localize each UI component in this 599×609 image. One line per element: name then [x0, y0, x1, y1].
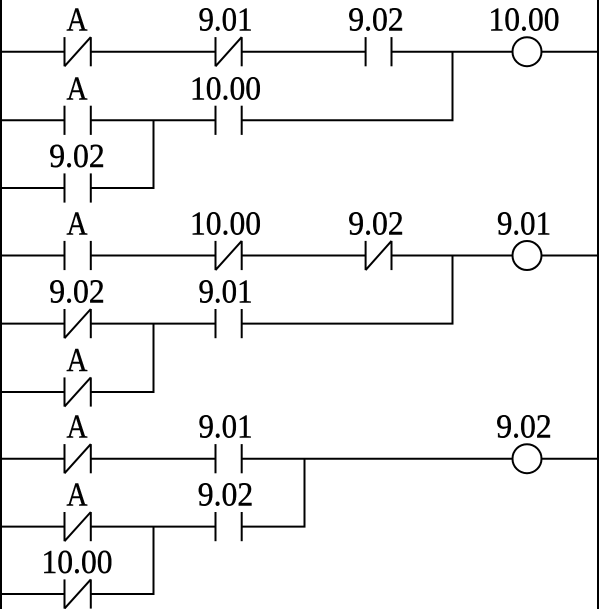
wire junction J1: rung3 up to rung2: [153, 120, 155, 188]
svg-text:9.02: 9.02: [348, 2, 404, 39]
wire rung7: left rail to contact A: [0, 458, 65, 460]
wire rung7: 9.01 to coil, through node J5: [242, 458, 513, 460]
svg-text:9.01: 9.01: [199, 274, 253, 311]
wire junction J6: rung9 up to rung8: [153, 527, 155, 594]
contact A (NC) rung6: [65, 377, 91, 406]
wire rung2: left rail to contact A: [0, 119, 65, 121]
contact 9.02 (NO) rung3: [65, 173, 91, 202]
wire rung7: coil to right rail: [542, 458, 599, 460]
coil 9.02: [513, 444, 542, 473]
wire rung1: 9.02 to coil, through node J2: [392, 51, 513, 53]
wire rung4: 10.00 to 9.02: [242, 255, 366, 257]
wire rung5: left rail to contact 9.02: [0, 323, 65, 325]
contact 9.02 (NO) rung8: [216, 512, 242, 541]
contact A (NC) rung8: [65, 512, 91, 541]
left power rail: [0, 0, 2, 609]
svg-text:A: A: [67, 342, 88, 379]
wire rung9: 10.00 to node J6: [91, 593, 155, 595]
contact 9.01 (NC) rung1: [216, 37, 242, 66]
wire rung3: left rail to contact 9.02: [0, 187, 65, 189]
wire rung9: left rail to contact 10.00: [0, 593, 65, 595]
contact 10.00 (NO) rung2: [216, 106, 242, 135]
svg-text:A: A: [67, 409, 88, 446]
svg-text:9.02: 9.02: [49, 138, 105, 175]
contact 9.02 (NO) rung1: [366, 37, 392, 66]
wire junction J3: rung5 up to rung4: [452, 256, 454, 324]
svg-text:10.00: 10.00: [190, 206, 261, 243]
wire rung6: A to node J4: [91, 391, 155, 393]
contact 9.02 (NC) rung4: [366, 241, 392, 270]
svg-text:9.01: 9.01: [199, 409, 253, 446]
contact 9.01 (NO) rung7: [216, 444, 242, 473]
contact A (NC) rung7: [65, 444, 91, 473]
svg-text:A: A: [67, 2, 88, 39]
contact 9.02 (NC) rung5: [65, 309, 91, 338]
svg-text:9.02: 9.02: [496, 409, 552, 446]
contact 10.00 (NC) rung9: [65, 579, 91, 608]
svg-text:9.01: 9.01: [497, 206, 551, 243]
wire rung2: 10.00 to node J2: [242, 119, 454, 121]
contact A (NO) rung4: [65, 241, 91, 270]
svg-text:9.02: 9.02: [348, 206, 404, 243]
svg-text:A: A: [67, 70, 88, 107]
svg-text:9.02: 9.02: [198, 477, 254, 514]
wire rung6: left rail to contact A: [0, 391, 65, 393]
wire rung7: A to 9.01: [91, 458, 216, 460]
wire junction J5: rung8 up to rung7: [304, 459, 306, 527]
svg-text:A: A: [67, 206, 88, 243]
wire rung1: 9.01 to 9.02: [242, 51, 366, 53]
wire rung1: A to 9.01: [91, 51, 216, 53]
wire junction J4: rung6 up to rung5: [153, 324, 155, 392]
contact A (NO) rung2: [65, 106, 91, 135]
wire rung4: 9.02 to coil, through node J3: [392, 255, 513, 257]
wire rung4: coil to right rail: [542, 255, 599, 257]
svg-text:9.01: 9.01: [199, 2, 253, 39]
svg-text:9.02: 9.02: [49, 274, 105, 311]
wire rung4: A to 10.00: [91, 255, 216, 257]
wire rung8: 9.02 to node J5: [242, 526, 306, 528]
wire rung3: 9.02 to node J1: [91, 187, 155, 189]
wire rung5: 9.02 to 9.01, through node J4: [91, 323, 216, 325]
contact A (NC) rung1: [65, 37, 91, 66]
wire rung8: A to 9.02, through node J6: [91, 526, 216, 528]
wire rung4: left rail to contact A: [0, 255, 65, 257]
svg-text:10.00: 10.00: [190, 70, 261, 107]
contact 9.01 (NO) rung5: [216, 309, 242, 338]
contact 10.00 (NC) rung4: [216, 241, 242, 270]
wire rung1: coil to right rail: [542, 51, 599, 53]
coil 10.00: [513, 37, 542, 66]
svg-text:A: A: [67, 477, 88, 514]
coil 9.01: [513, 241, 542, 270]
wire rung8: left rail to contact A: [0, 526, 65, 528]
right power rail: [597, 0, 599, 609]
wire junction J2: rung2 up to rung1: [452, 52, 454, 121]
wire rung5: 9.01 to node J3: [242, 323, 454, 325]
svg-text:10.00: 10.00: [42, 544, 113, 581]
wire rung2: A to 10.00, through node J1: [91, 119, 216, 121]
wire rung1: left rail to contact A: [0, 51, 65, 53]
svg-text:10.00: 10.00: [489, 2, 560, 39]
